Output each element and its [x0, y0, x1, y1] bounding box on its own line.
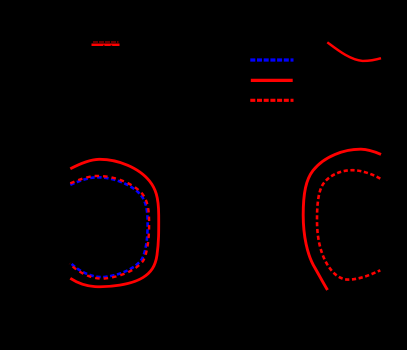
- top-left panel: small flat contour, dark notch left: [103, 45, 105, 46]
- top-left panel: small flat contour, bright solid bottom edge: [92, 43, 120, 46]
- top-left panel: small flat contour, dim dashed top edge: [93, 41, 119, 43]
- legend: blue dashed sample line: [250, 58, 293, 61]
- bottom-right panel: inner red dashed contour: [317, 170, 380, 279]
- bottom-left panel: red dashed contour overlapping blue: [70, 176, 149, 279]
- top-right panel: red solid dipping curve: [327, 42, 381, 61]
- bottom-left panel: inner blue dashed contour: [70, 177, 148, 277]
- legend: red solid sample line: [251, 79, 293, 82]
- top-left panel: small flat contour, dark notch right: [111, 45, 113, 46]
- legend: red dashed sample line: [250, 99, 293, 102]
- bottom-right panel: outer red solid contour: [303, 149, 381, 290]
- bottom-left panel: outer red solid contour: [70, 159, 158, 286]
